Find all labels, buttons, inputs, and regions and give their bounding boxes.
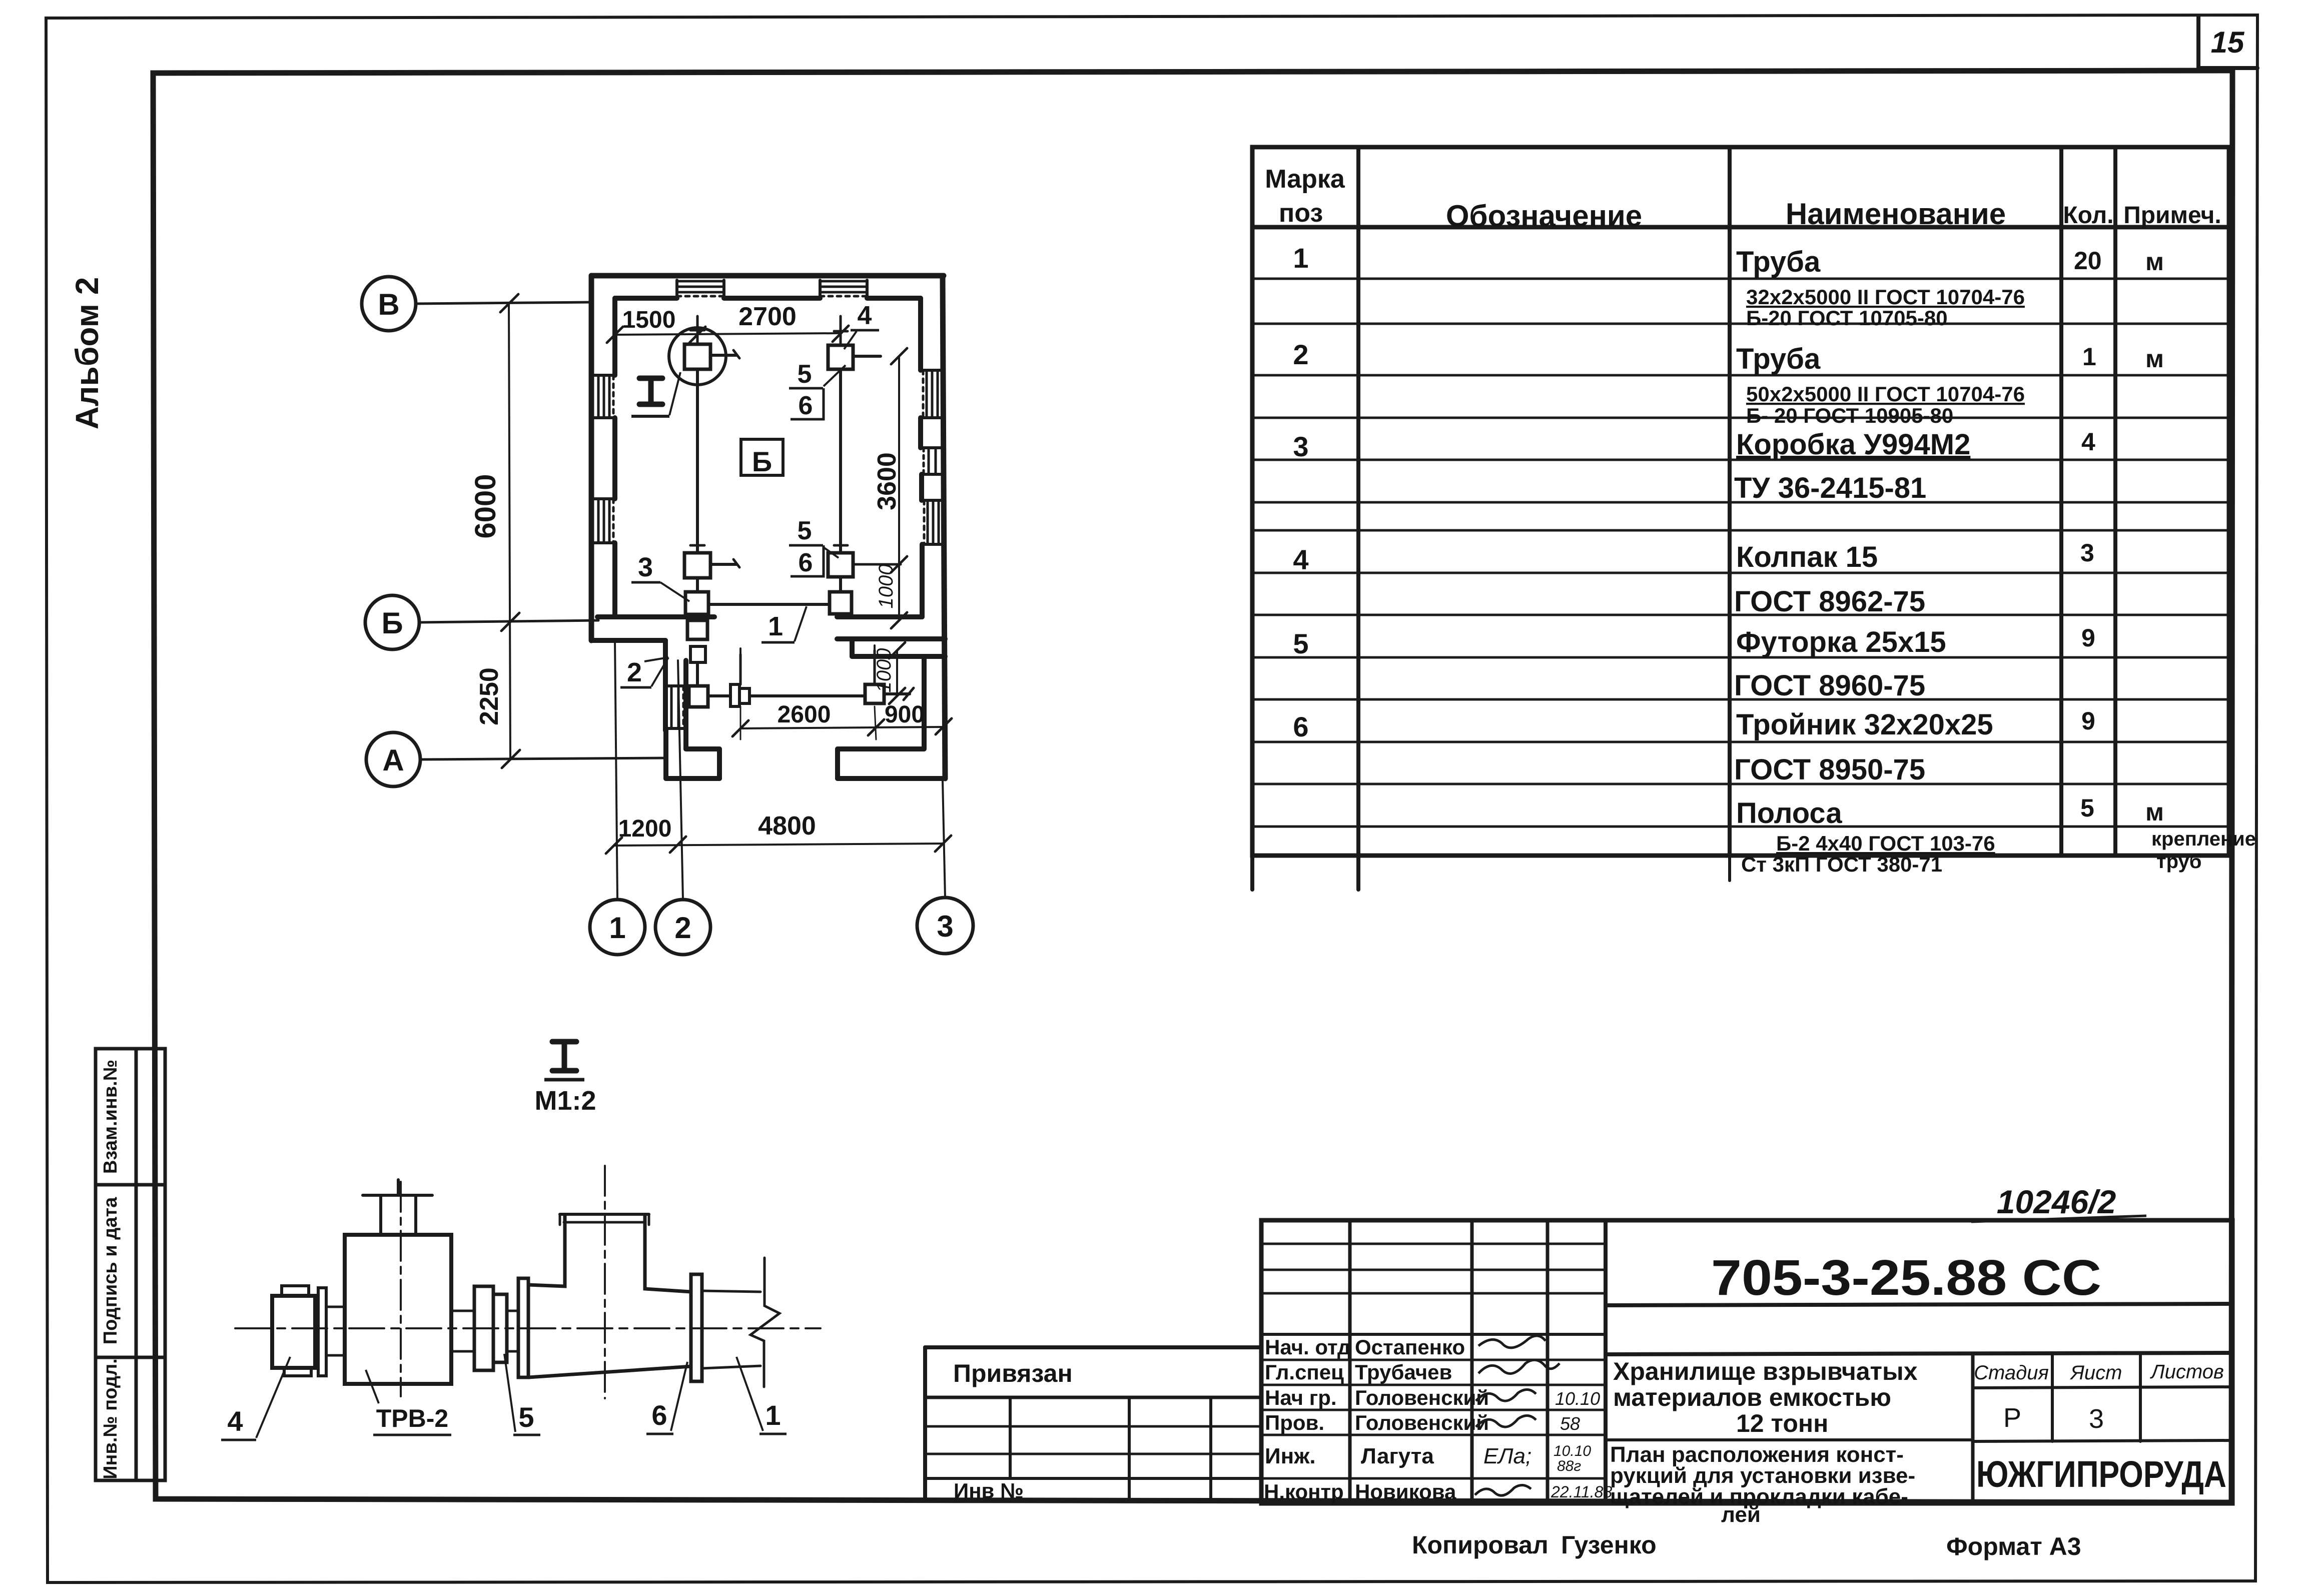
- building top wall outer: [591, 273, 944, 279]
- axis circle Б: [365, 595, 419, 649]
- svg-text:5: 5: [798, 360, 812, 389]
- dim segment 1000 right: [898, 564, 900, 620]
- building top wall inner segments: [615, 296, 677, 301]
- junction box I: [839, 577, 842, 592]
- svg-text:ГОСТ 8962-75: ГОСТ 8962-75: [1734, 585, 1925, 618]
- room label Б box: [741, 439, 783, 475]
- svg-text:ЮЖГИПРОРУДА: ЮЖГИПРОРУДА: [1976, 1453, 2226, 1495]
- svg-text:Обозначение: Обозначение: [1446, 199, 1642, 233]
- svg-text:2600: 2600: [778, 701, 831, 728]
- title block main divider: [1604, 1220, 1608, 1503]
- svg-text:4: 4: [2081, 428, 2095, 456]
- svg-text:Остапенко: Остапенко: [1355, 1335, 1465, 1359]
- svg-text:2250: 2250: [475, 667, 504, 725]
- junction box B: [684, 553, 710, 578]
- svg-text:В: В: [378, 288, 399, 321]
- svg-text:Лагута: Лагута: [1361, 1444, 1434, 1468]
- signatures (squiggles): [1478, 1336, 1546, 1348]
- svg-text:м: м: [2145, 798, 2164, 826]
- svg-text:10246/2: 10246/2: [1997, 1183, 2116, 1220]
- svg-text:Гузенко: Гузенко: [1561, 1531, 1657, 1559]
- left wall window 2: [597, 499, 600, 543]
- svg-text:Труба: Труба: [1736, 246, 1821, 278]
- svg-text:6: 6: [651, 1399, 667, 1431]
- svg-text:1: 1: [765, 1399, 781, 1431]
- svg-text:1000: 1000: [873, 648, 895, 693]
- vertical dimension line 6000/2250: [509, 304, 510, 759]
- detail circle around junction box: [669, 328, 726, 385]
- parts table column line 2: [1728, 147, 1732, 856]
- svg-text:10.10: 10.10: [1555, 1388, 1600, 1409]
- vent riser 1: [739, 654, 742, 684]
- svg-text:крепление: крепление: [2151, 828, 2256, 850]
- svg-text:Б: Б: [752, 446, 772, 477]
- svg-text:Б-20 ГОСТ 10705-80: Б-20 ГОСТ 10705-80: [1746, 306, 1948, 330]
- parts table column line 4: [2113, 147, 2117, 856]
- svg-text:М1:2: М1:2: [534, 1086, 596, 1116]
- wall sleeve box D: [687, 620, 707, 639]
- vestibule left wall window symbol: [670, 686, 673, 728]
- dim line 2600/900: [740, 727, 944, 728]
- left wall window 1: [597, 375, 600, 418]
- svg-text:Наименование: Наименование: [1786, 197, 2006, 231]
- axis circle 1: [590, 900, 645, 955]
- svg-text:Стадия: Стадия: [1974, 1362, 2049, 1384]
- svg-text:труб: труб: [2156, 851, 2201, 873]
- top wall window 2: [820, 280, 867, 283]
- svg-text:Альбом 2: Альбом 2: [69, 277, 105, 430]
- building right wall outer: [943, 276, 945, 778]
- svg-text:4: 4: [858, 301, 872, 330]
- svg-text:15: 15: [2211, 26, 2245, 59]
- vestibule right wall band: [837, 636, 945, 641]
- building left wall inner segments: [612, 298, 617, 375]
- room bottom horizontal pipe: [708, 603, 830, 606]
- title block vertical фамилия: [1470, 1220, 1474, 1503]
- detail tee body: [528, 1216, 691, 1377]
- top wall window 1: [677, 280, 724, 283]
- svg-text:Полоса: Полоса: [1736, 797, 1842, 830]
- svg-text:Головенский: Головенский: [1355, 1411, 1489, 1434]
- svg-text:900: 900: [885, 701, 925, 728]
- svg-text:4800: 4800: [758, 812, 816, 841]
- vent riser 2: [874, 650, 876, 684]
- svg-text:50х2х5000 II ГОСТ 10704-76: 50х2х5000 II ГОСТ 10704-76: [1746, 382, 2025, 406]
- svg-text:Нач. отд: Нач. отд: [1265, 1335, 1351, 1359]
- svg-text:м: м: [2145, 248, 2164, 276]
- detail centerline: [235, 1327, 821, 1329]
- parts table column line 3: [2059, 147, 2063, 856]
- vestibule fitting F: [689, 686, 708, 707]
- svg-text:ГОСТ 8960-75: ГОСТ 8960-75: [1734, 669, 1925, 702]
- svg-text:2: 2: [674, 911, 691, 945]
- junction box G (top of pipe 2): [828, 345, 853, 369]
- svg-text:4: 4: [227, 1405, 243, 1437]
- bottom wall of main room left segment: [597, 614, 714, 619]
- svg-text:6: 6: [1293, 711, 1308, 742]
- svg-text:32х2х5000 II ГОСТ 10704-76: 32х2х5000 II ГОСТ 10704-76: [1746, 285, 2025, 309]
- svg-text:Копировал: Копировал: [1412, 1531, 1549, 1559]
- detail tee top flange: [560, 1213, 649, 1216]
- svg-text:5: 5: [1293, 628, 1308, 659]
- svg-text:Инв.№ подл.: Инв.№ подл.: [100, 1358, 121, 1479]
- svg-text:5: 5: [518, 1401, 534, 1433]
- bottom wall of main room right segment: [837, 614, 922, 619]
- axis circle В: [362, 277, 416, 331]
- right wall window 2: [928, 448, 930, 474]
- svg-text:Нач гр.: Нач гр.: [1265, 1386, 1337, 1409]
- svg-text:6: 6: [799, 391, 813, 420]
- svg-text:1000: 1000: [875, 564, 897, 609]
- axis circle А: [366, 732, 420, 786]
- detail tee (поз.6) left flange: [518, 1278, 528, 1377]
- axis line А: [420, 758, 666, 759]
- parts table outer grid: [1252, 147, 2229, 856]
- svg-text:Колпак 15: Колпак 15: [1736, 541, 1878, 573]
- parts table row lines: [1252, 278, 2229, 280]
- vestibule coupling J: [730, 684, 739, 706]
- vestibule dim 1000 vertical: [896, 650, 898, 696]
- svg-text:Тройник 32х20х25: Тройник 32х20х25: [1736, 708, 1993, 741]
- svg-text:9: 9: [2081, 707, 2095, 735]
- svg-text:Инв №: Инв №: [954, 1479, 1024, 1502]
- right wall window 3: [927, 500, 929, 544]
- svg-text:2: 2: [627, 657, 642, 687]
- svg-text:Подпись и дата: Подпись и дата: [100, 1197, 121, 1344]
- axis extension line 3: [943, 780, 945, 898]
- svg-text:3: 3: [638, 552, 653, 582]
- sheet number box top-right: [2198, 16, 2257, 68]
- porch right wall: [838, 746, 924, 751]
- svg-text:ЕЛа;: ЕЛа;: [1483, 1444, 1531, 1468]
- svg-text:4: 4: [1293, 544, 1308, 575]
- svg-text:Труба: Труба: [1736, 343, 1821, 375]
- svg-text:3600: 3600: [873, 452, 902, 510]
- signature table row lines: [1261, 1243, 1606, 1245]
- riser pipe 1: [696, 369, 699, 553]
- axis line Б: [419, 620, 598, 622]
- detail box top prongs: [379, 1195, 382, 1235]
- svg-text:3: 3: [2089, 1404, 2104, 1434]
- title block vertical подпись: [1546, 1220, 1550, 1503]
- detail cap flange: [318, 1288, 326, 1376]
- detail pipe (поз.1) with break: [702, 1291, 760, 1292]
- svg-text:Ст 3кП ГОСТ 380-71: Ст 3кП ГОСТ 380-71: [1741, 853, 1942, 876]
- svg-text:Новикова: Новикова: [1355, 1480, 1456, 1503]
- svg-text:Трубачев: Трубачев: [1355, 1360, 1452, 1384]
- svg-text:3: 3: [937, 910, 953, 943]
- svg-text:Головенский: Головенский: [1355, 1386, 1489, 1409]
- junction box A (коробка поз.3): [684, 344, 710, 369]
- axis line В: [416, 302, 592, 304]
- svg-text:2: 2: [1293, 339, 1308, 370]
- axis extension line 2: [678, 660, 683, 900]
- label I (узел) with leader: [639, 378, 662, 404]
- svg-text:Кол.: Кол.: [2063, 202, 2113, 229]
- detail cap (поз.4) body: [272, 1296, 315, 1368]
- sleeve box E: [690, 646, 705, 662]
- dim line 3600 right: [898, 356, 900, 564]
- left stamp column grid: [96, 1049, 165, 1480]
- svg-text:Коробка У994М2: Коробка У994М2: [1736, 428, 1970, 461]
- svg-text:Футорка 25х15: Футорка 25х15: [1736, 626, 1946, 658]
- junction box C: [696, 578, 699, 592]
- axis extension line 1: [615, 640, 617, 900]
- right sub-table grid: [1971, 1354, 1975, 1503]
- axis circle 3: [917, 898, 973, 954]
- svg-text:Примеч.: Примеч.: [2123, 202, 2221, 229]
- svg-text:2700: 2700: [738, 302, 797, 331]
- detail pipe box to coupling: [451, 1310, 474, 1312]
- svg-text:22.11.88: 22.11.88: [1551, 1483, 1612, 1501]
- svg-text:6000: 6000: [469, 474, 502, 538]
- svg-text:Гл.спец: Гл.спец: [1265, 1360, 1344, 1384]
- svg-text:3: 3: [2080, 539, 2094, 567]
- axis circle 2: [655, 900, 710, 955]
- svg-text:1: 1: [768, 611, 783, 641]
- svg-text:5: 5: [798, 516, 812, 545]
- svg-text:1: 1: [1293, 242, 1308, 274]
- bottom dimension line 1200/4800: [614, 844, 943, 846]
- top dimension line 1500/2700: [615, 333, 841, 335]
- svg-text:Яист: Яист: [2070, 1362, 2122, 1384]
- svg-text:Хранилище взрывчатых: Хранилище взрывчатых: [1613, 1357, 1918, 1385]
- building right wall inner segments: [918, 298, 923, 370]
- svg-text:Р: Р: [2003, 1403, 2021, 1433]
- svg-text:3: 3: [1293, 431, 1308, 462]
- porch left wall: [663, 730, 668, 778]
- svg-text:Б-2 4х40 ГОСТ 103-76: Б-2 4х40 ГОСТ 103-76: [1776, 832, 1995, 855]
- title block outer: [1261, 1220, 2232, 1503]
- svg-text:58: 58: [1560, 1413, 1580, 1434]
- riser pipe 2: [839, 369, 842, 553]
- svg-text:материалов емкостью: материалов емкостью: [1613, 1383, 1891, 1411]
- svg-text:поз: поз: [1279, 199, 1323, 228]
- building left wall outer: [589, 276, 594, 640]
- vestibule left door wall: [663, 640, 668, 730]
- detail pipe coupling to tee: [507, 1310, 518, 1312]
- svg-text:9: 9: [2081, 624, 2095, 652]
- svg-text:705-3-25.88 СС: 705-3-25.88 СС: [1711, 1250, 2101, 1306]
- svg-text:Марка: Марка: [1265, 165, 1345, 194]
- parts table header underline: [1252, 225, 2229, 230]
- svg-text:Листов: Листов: [2149, 1361, 2224, 1383]
- svg-text:ГОСТ 8950-75: ГОСТ 8950-75: [1734, 753, 1925, 786]
- svg-text:А: А: [382, 743, 404, 777]
- parts table left column stubs below: [1250, 856, 1254, 890]
- svg-text:1: 1: [2082, 343, 2096, 371]
- svg-text:Б: Б: [381, 606, 403, 640]
- detail pipe cap to box: [326, 1306, 345, 1308]
- detail coupling (поз.5): [474, 1286, 493, 1370]
- svg-text:лей: лей: [1721, 1502, 1761, 1527]
- svg-text:88г: 88г: [1557, 1458, 1581, 1474]
- svg-text:Инж.: Инж.: [1265, 1444, 1316, 1468]
- svg-text:1: 1: [609, 911, 625, 945]
- svg-text:20: 20: [2074, 247, 2102, 275]
- detail ТРВ-2 box: [345, 1235, 451, 1384]
- svg-text:10.10: 10.10: [1554, 1443, 1591, 1459]
- svg-text:Пров.: Пров.: [1265, 1411, 1324, 1434]
- svg-text:Н.контр: Н.контр: [1264, 1480, 1344, 1503]
- svg-text:5: 5: [2080, 794, 2094, 822]
- svg-text:Формат А3: Формат А3: [1946, 1532, 2081, 1560]
- vestibule fitting K: [865, 684, 884, 703]
- title block vertical должность: [1348, 1220, 1352, 1503]
- привязан table: [925, 1345, 1261, 1349]
- detail title I / M1:2: [552, 1042, 576, 1071]
- doc number band underline: [1606, 1304, 2232, 1305]
- svg-text:12 тонн: 12 тонн: [1736, 1409, 1828, 1437]
- junction box H: [828, 553, 853, 577]
- detail tee right flange: [691, 1274, 702, 1381]
- svg-text:1200: 1200: [618, 816, 672, 842]
- parts table column line 1: [1356, 147, 1360, 856]
- svg-text:Взам.инв.№: Взам.инв.№: [100, 1060, 121, 1174]
- svg-text:6: 6: [799, 548, 813, 577]
- svg-text:Привязан: Привязан: [953, 1359, 1073, 1387]
- svg-text:м: м: [2145, 345, 2164, 373]
- right wall window 1: [926, 370, 928, 418]
- название divider: [1606, 1438, 1973, 1441]
- svg-text:ТУ 36-2415-81: ТУ 36-2415-81: [1734, 472, 1926, 504]
- svg-text:ТРВ-2: ТРВ-2: [376, 1404, 448, 1432]
- vestibule horizontal pipe: [749, 694, 865, 697]
- svg-text:Б- 20 ГОСТ 10905-80: Б- 20 ГОСТ 10905-80: [1746, 404, 1953, 427]
- svg-text:1500: 1500: [622, 307, 676, 333]
